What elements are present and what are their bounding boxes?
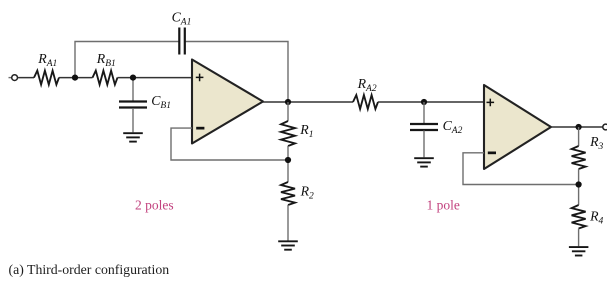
svg-text:1 pole: 1 pole xyxy=(427,198,460,213)
svg-text:(a) Third-order configuration: (a) Third-order configuration xyxy=(9,262,170,278)
svg-text:2 poles: 2 poles xyxy=(135,198,174,213)
